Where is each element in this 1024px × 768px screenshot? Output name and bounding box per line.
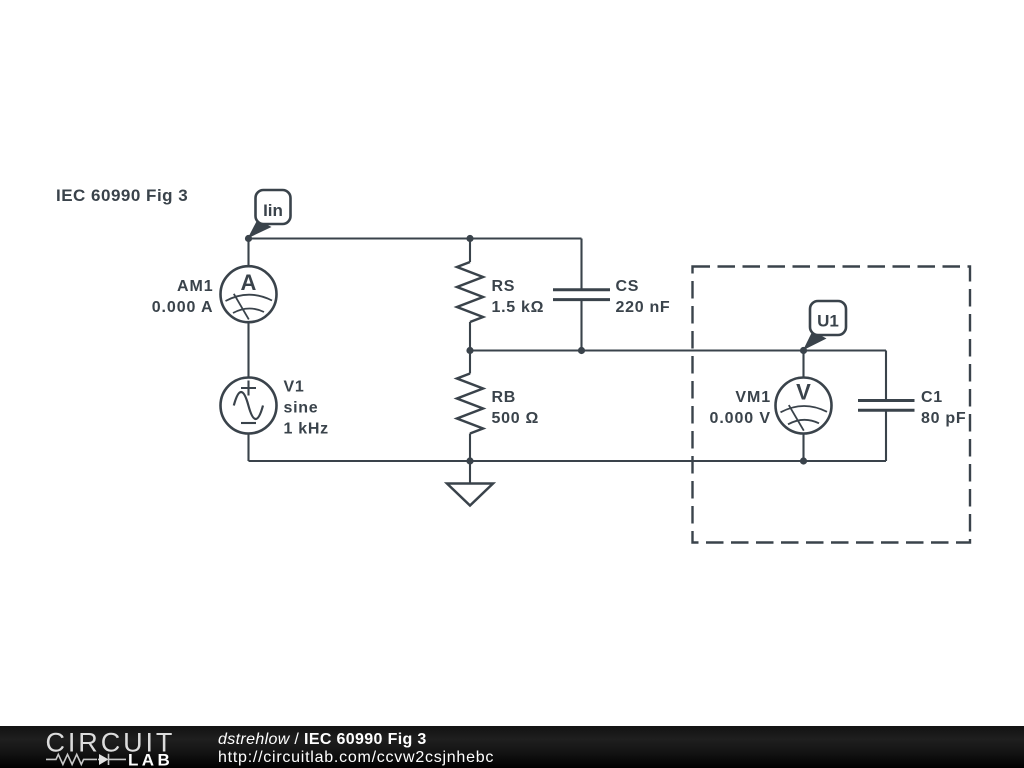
- wire bottom: V1 bottom to C1 bottom: [249, 460, 887, 462]
- svg-text:1.5 kΩ: 1.5 kΩ: [492, 299, 545, 316]
- net flag U1: [803, 301, 846, 350]
- svg-text:RB: RB: [492, 389, 517, 406]
- voltmeter VM1: [776, 351, 832, 462]
- logo CircuitLab: [0, 726, 200, 768]
- svg-text:C1: C1: [921, 389, 943, 406]
- node ground junction: [466, 457, 473, 464]
- svg-text:CS: CS: [616, 278, 640, 295]
- resistor RB: [457, 351, 483, 462]
- net flag Iin: [248, 190, 291, 238]
- ammeter AM1: [221, 239, 277, 378]
- svg-text:Iin: Iin: [263, 201, 283, 220]
- svg-text:220 nF: 220 nF: [616, 299, 671, 316]
- wire middle: RS bottom to C1 top: [470, 349, 886, 351]
- label C1 value: [921, 389, 966, 427]
- node U1 junction: [800, 347, 807, 354]
- svg-text:LAB: LAB: [128, 751, 173, 768]
- svg-text:0.000 V: 0.000 V: [710, 410, 771, 427]
- label RS value: [492, 278, 545, 316]
- svg-text:1 kHz: 1 kHz: [284, 421, 329, 438]
- wire top: Iin node to CS top: [249, 237, 582, 239]
- svg-text:A: A: [241, 270, 257, 295]
- svg-text:0.000 A: 0.000 A: [152, 299, 214, 316]
- label AM1 value: [152, 278, 214, 316]
- svg-text:RS: RS: [492, 278, 516, 295]
- node Iin junction: [245, 235, 252, 242]
- node CS bottom junction: [578, 347, 585, 354]
- ground: [447, 461, 493, 506]
- svg-text:sine: sine: [284, 400, 319, 417]
- footer bar: [0, 726, 1024, 768]
- label RB value: [492, 389, 539, 427]
- svg-text:U1: U1: [817, 312, 839, 331]
- dashed box U1: [693, 267, 971, 543]
- label VM1 value: [710, 389, 771, 427]
- svg-text:IEC 60990 Fig 3: IEC 60990 Fig 3: [56, 186, 188, 205]
- svg-text:VM1: VM1: [735, 389, 771, 406]
- svg-text:V1: V1: [284, 379, 305, 396]
- node VM1 bottom junction: [800, 457, 807, 464]
- voltage source V1: [221, 378, 277, 462]
- resistor RS: [457, 239, 483, 351]
- svg-text:80 pF: 80 pF: [921, 410, 966, 427]
- capacitor C1: [858, 351, 915, 462]
- node RS-RB junction: [466, 347, 473, 354]
- label CS value: [616, 278, 671, 316]
- svg-text:V: V: [796, 379, 811, 404]
- label V1 value: [284, 379, 329, 438]
- footer title text: [218, 732, 427, 748]
- node top RS junction: [466, 235, 473, 242]
- svg-text:500 Ω: 500 Ω: [492, 410, 539, 427]
- capacitor CS: [553, 239, 610, 351]
- footer url text: [218, 750, 494, 766]
- svg-text:AM1: AM1: [177, 278, 213, 295]
